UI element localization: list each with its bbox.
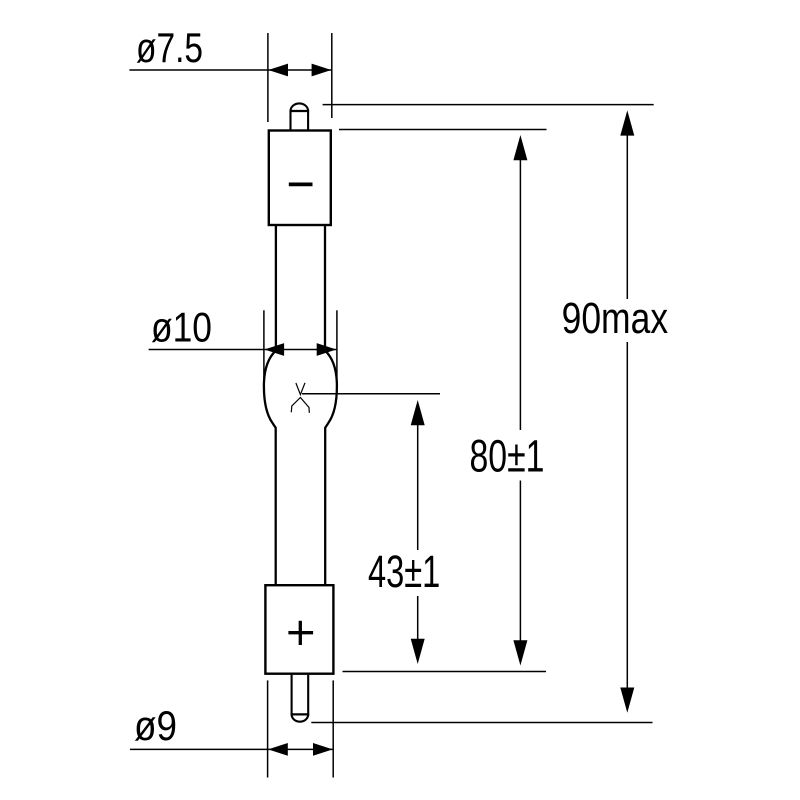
bottom pin xyxy=(291,675,310,722)
plus sign xyxy=(288,621,313,645)
dimension ø10 xyxy=(149,310,337,381)
dimension 43±1 xyxy=(302,394,440,640)
dimension ø9 xyxy=(130,680,333,777)
lamp tube and bulb outline left xyxy=(264,226,276,585)
dimension 80±1 xyxy=(339,130,547,672)
top pin xyxy=(290,103,310,130)
svg-text:80±1: 80±1 xyxy=(470,431,545,482)
svg-text:ø10: ø10 xyxy=(151,304,212,351)
dimension 90max xyxy=(311,105,653,723)
lamp tube and bulb outline right xyxy=(325,226,337,585)
electrode symbol in bulb xyxy=(291,383,309,413)
bottom cap (plus electrode housing) xyxy=(265,585,333,674)
minus sign xyxy=(289,182,313,186)
dimension ø7.5 xyxy=(129,33,331,122)
svg-text:ø7.5: ø7.5 xyxy=(136,24,203,71)
svg-text:ø9: ø9 xyxy=(134,702,177,749)
svg-text:43±1: 43±1 xyxy=(368,546,440,597)
top cap (minus electrode housing) xyxy=(269,131,331,226)
svg-text:90max: 90max xyxy=(562,294,669,343)
